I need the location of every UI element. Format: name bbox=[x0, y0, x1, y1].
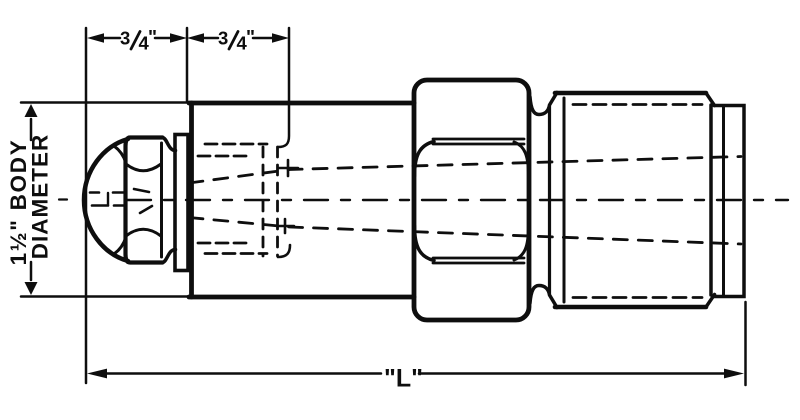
hidden row y144 bbox=[205, 143, 267, 146]
hidden tapped hole in dome top bbox=[90, 191, 124, 194]
extension line middle (x=187) bbox=[186, 28, 189, 101]
body bottom edge bbox=[189, 295, 414, 300]
hidden vertical column x277.5 bbox=[276, 147, 279, 256]
cylinder right chamfer bottom bbox=[706, 295, 715, 308]
cylinder inner left line bbox=[563, 98, 566, 302]
svg-text:3: 3 bbox=[218, 28, 228, 49]
cap interior tick 1 bbox=[134, 189, 149, 192]
slash of 3/4 left bbox=[131, 32, 140, 50]
label 3/4" right bbox=[218, 28, 255, 54]
cylinder hidden row top bbox=[573, 103, 702, 106]
dimension line 3/4 left bbox=[100, 37, 172, 40]
hidden hook bottom bbox=[278, 245, 290, 257]
body diameter extension line bottom bbox=[21, 295, 190, 298]
cap chamfer arc bottom bbox=[126, 229, 161, 236]
hex nut outline bbox=[414, 80, 529, 320]
dimension line 3/4 right bbox=[200, 37, 272, 40]
hidden taper line upper bbox=[189, 157, 741, 184]
hidden cross lower bbox=[277, 219, 294, 233]
cap corner arc top-left bbox=[114, 146, 126, 163]
dome (acorn cap) bbox=[84, 139, 128, 261]
nut face arc top-left bbox=[415, 142, 435, 177]
cap hex silhouette left bbox=[126, 138, 163, 263]
cap hex vertical x=161.5 bbox=[160, 143, 163, 257]
svg-text:": " bbox=[148, 28, 157, 49]
hidden row y243 bbox=[198, 242, 249, 245]
body diameter extension line top bbox=[21, 101, 190, 104]
label DIAMETER (rotated) bbox=[28, 134, 53, 260]
nut face arc bottom-left bbox=[415, 226, 435, 261]
slash of 3/4 right bbox=[229, 32, 238, 50]
groove top bbox=[530, 93, 557, 115]
L dimension line bbox=[104, 372, 727, 375]
body top edge bbox=[189, 101, 414, 106]
groove bottom bbox=[530, 286, 557, 308]
cylinder bottom edge bbox=[555, 305, 706, 310]
L extension line right (x=745.5) bbox=[744, 302, 747, 385]
body left edge bbox=[189, 103, 194, 297]
hidden tapped hole in dome bottom bbox=[92, 204, 124, 207]
svg-text:"L": "L" bbox=[384, 365, 423, 393]
end cap left edge bbox=[722, 106, 725, 297]
cylinder hidden row bottom bbox=[573, 296, 702, 299]
hidden cross upper bbox=[279, 160, 298, 176]
nut face arc bottom-right bbox=[514, 226, 529, 260]
nut chamfer lines bottom bbox=[433, 258, 524, 263]
cap chamfer arc top bbox=[126, 164, 161, 171]
body diameter arrowheads bbox=[25, 104, 38, 295]
nut face arc top-right bbox=[514, 142, 529, 176]
cylinder right chamfer top bbox=[706, 93, 715, 106]
svg-text:3: 3 bbox=[120, 28, 130, 49]
end cap bbox=[714, 106, 744, 297]
svg-text:": " bbox=[246, 28, 255, 49]
extension line left (x=86) bbox=[85, 28, 88, 383]
cap interior tick 2 bbox=[140, 206, 152, 213]
cap corner arc bottom-left bbox=[114, 237, 126, 254]
svg-text:DIAMETER: DIAMETER bbox=[28, 134, 53, 260]
body diameter dimension line bbox=[30, 119, 33, 280]
hidden row y156 bbox=[198, 155, 249, 158]
label 1 1/2 inch BODY (rotated) bbox=[6, 139, 31, 266]
groove right wall bbox=[548, 106, 551, 294]
L arrowheads bbox=[87, 369, 744, 379]
centerline bbox=[59, 198, 67, 200]
arrowheads top dims bbox=[87, 33, 289, 43]
hidden taper line lower bbox=[189, 218, 741, 245]
cylinder top edge bbox=[555, 91, 706, 96]
cylinder right edge bbox=[709, 105, 713, 295]
hidden row y253.5 bbox=[205, 252, 267, 255]
label "L" bbox=[384, 365, 423, 393]
hole end tick bbox=[107, 193, 109, 205]
neck dip top bbox=[163, 138, 176, 151]
hidden vertical column x263 bbox=[262, 147, 265, 256]
nut chamfer lines top bbox=[433, 139, 524, 144]
extension line right (x=289) bbox=[278, 28, 289, 147]
neck dip bottom bbox=[163, 250, 176, 263]
label 3/4" left bbox=[120, 28, 157, 54]
flange bbox=[175, 135, 188, 271]
